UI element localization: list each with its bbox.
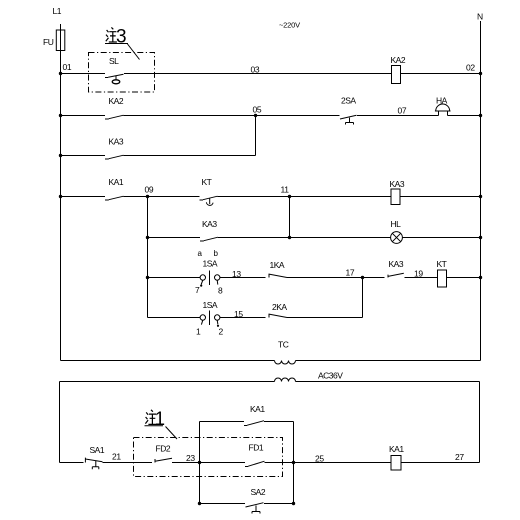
wire row 3 <box>61 155 256 157</box>
svg-text:1: 1 <box>196 327 201 337</box>
timer coil KT <box>437 259 447 287</box>
contact FD2 (NO) <box>155 444 172 463</box>
svg-text:07: 07 <box>398 106 407 116</box>
wire right bus N <box>480 21 482 361</box>
wire parallel group right edge <box>293 422 295 504</box>
node 05 <box>253 105 262 118</box>
svg-text:17: 17 <box>346 268 355 278</box>
svg-text:7: 7 <box>195 285 200 295</box>
junction row 4 left <box>59 195 62 198</box>
contact KA2 (NO) row 2 <box>105 96 124 119</box>
svg-text:HL: HL <box>391 219 402 229</box>
svg-text:KA1: KA1 <box>109 177 124 187</box>
svg-text:KA2: KA2 <box>109 96 124 106</box>
relay coil KA3 row 4 <box>390 179 405 205</box>
wire lower section top <box>60 381 480 383</box>
contact FD1 (NO) <box>245 443 265 467</box>
svg-text:KA3: KA3 <box>390 179 405 189</box>
svg-text:SA2: SA2 <box>251 487 266 497</box>
transformer TC primary winding <box>275 340 296 365</box>
junction row 2 left <box>59 114 62 117</box>
wire left bus <box>60 51 62 361</box>
svg-text:8: 8 <box>218 286 223 296</box>
switch 2SA with manual operator <box>340 96 357 125</box>
wire riser node 09 <box>147 197 149 318</box>
svg-text:2KA: 2KA <box>272 302 287 312</box>
svg-text:AC36V: AC36V <box>318 371 343 381</box>
contact KA3 (NO) row 6 <box>388 259 404 278</box>
svg-text:KA3: KA3 <box>202 219 217 229</box>
svg-text:03: 03 <box>251 65 260 75</box>
node 01 <box>59 62 72 75</box>
fuse FU <box>43 30 65 51</box>
svg-text:KT: KT <box>202 177 212 187</box>
relay coil KA1 lower <box>389 444 404 470</box>
selector switch 1SA contacts 7-8 position a/b <box>195 249 223 296</box>
wire row 6 segments <box>148 277 481 279</box>
wire parallel group left edge <box>199 422 201 504</box>
svg-text:FD2: FD2 <box>156 444 171 454</box>
svg-text:~220V: ~220V <box>279 21 300 30</box>
svg-text:KA1: KA1 <box>250 404 265 414</box>
svg-text:KA3: KA3 <box>389 259 404 269</box>
wire riser node 17 <box>362 278 364 318</box>
note 注3 with underline and leader arrow <box>105 27 140 60</box>
wire bottom return with transformer TC primary <box>61 360 481 362</box>
svg-text:FU: FU <box>43 37 54 47</box>
svg-text:27: 27 <box>455 452 464 462</box>
junction riser row 5 at node 11 <box>288 236 291 239</box>
wire row 1 segments <box>61 73 481 75</box>
svg-text:13: 13 <box>232 269 241 279</box>
relay coil KA2 <box>391 55 406 84</box>
note 注1 with underline and leader arrow <box>145 409 178 439</box>
dash-dot enclosure around FD2 FD1 <box>134 438 283 477</box>
svg-text:15: 15 <box>234 309 243 319</box>
svg-text:L1: L1 <box>53 6 62 16</box>
wire riser node 11 <box>289 197 291 238</box>
contact 1KA (NO) row 6 <box>269 260 287 278</box>
wire lower left edge <box>59 382 61 463</box>
svg-text:01: 01 <box>63 62 72 72</box>
node 09 <box>145 185 154 199</box>
contact KA3 (NO) row 3 <box>105 137 124 160</box>
svg-text:11: 11 <box>281 185 290 195</box>
svg-text:FD1: FD1 <box>249 443 264 453</box>
node 17 <box>346 268 365 280</box>
svg-text:3: 3 <box>116 27 127 48</box>
wire lower main row segments <box>60 462 480 464</box>
svg-text:09: 09 <box>145 185 154 195</box>
contact 2KA (NO) row 7 <box>269 302 287 318</box>
junction row 4 right <box>479 195 482 198</box>
junction node 23 branch corners <box>198 502 201 505</box>
junction row 5 right <box>479 236 482 239</box>
svg-text:KT: KT <box>437 259 447 269</box>
wire node05 riser <box>255 116 257 156</box>
svg-text:KA1: KA1 <box>389 444 404 454</box>
svg-text:N: N <box>477 12 483 22</box>
wire row 2 segments <box>61 115 481 117</box>
svg-text:21: 21 <box>112 452 121 462</box>
selector switch 1SA contacts 1-2 row 7 <box>196 300 224 337</box>
contact KA3 (NO) row 5 <box>200 219 218 241</box>
svg-text:TC: TC <box>278 340 289 350</box>
svg-text:1KA: 1KA <box>270 260 285 270</box>
node 02 <box>466 63 482 76</box>
junction riser row 6 <box>146 276 149 279</box>
svg-text:1SA: 1SA <box>203 259 218 269</box>
switch SA2 with manual operator branch <box>200 487 294 514</box>
junction riser row 5 <box>146 236 149 239</box>
wire row 5 segments <box>148 237 481 239</box>
svg-text:19: 19 <box>414 269 423 279</box>
svg-text:25: 25 <box>315 454 324 464</box>
junction row 6 right <box>479 276 482 279</box>
svg-text:02: 02 <box>466 63 475 73</box>
svg-text:SA1: SA1 <box>90 445 105 455</box>
svg-text:b: b <box>214 249 219 258</box>
node 23 <box>186 453 201 464</box>
svg-text:SL: SL <box>109 56 119 66</box>
bell HA <box>435 96 451 116</box>
lamp HL <box>391 219 403 243</box>
svg-text:2: 2 <box>219 327 224 337</box>
liquid level switch SL <box>105 56 124 84</box>
svg-text:1: 1 <box>155 409 166 430</box>
svg-text:23: 23 <box>186 453 195 463</box>
contact KT on-delay (NO) row 4 <box>200 177 218 205</box>
svg-text:05: 05 <box>253 105 262 115</box>
svg-text:2SA: 2SA <box>341 96 356 106</box>
svg-text:1SA: 1SA <box>203 300 218 310</box>
junction row 2 right <box>479 114 482 117</box>
dash-dot enclosure around SL <box>89 53 155 93</box>
transformer TC secondary winding <box>275 371 344 382</box>
junction row 3 left <box>59 154 62 157</box>
wire row 4 segments <box>61 196 481 198</box>
wire L1 down to fuse <box>60 24 62 30</box>
svg-text:KA2: KA2 <box>391 55 406 65</box>
svg-text:KA3: KA3 <box>109 137 124 147</box>
switch SA1 with manual operator <box>85 445 104 469</box>
wire lower right edge <box>479 382 481 463</box>
svg-text:a: a <box>198 249 203 258</box>
contact KA1 (NO) row 4 <box>105 177 124 200</box>
node 11 <box>281 185 292 199</box>
contact KA1 (NO) branch <box>200 404 294 426</box>
wire row 7 segments <box>148 317 363 319</box>
